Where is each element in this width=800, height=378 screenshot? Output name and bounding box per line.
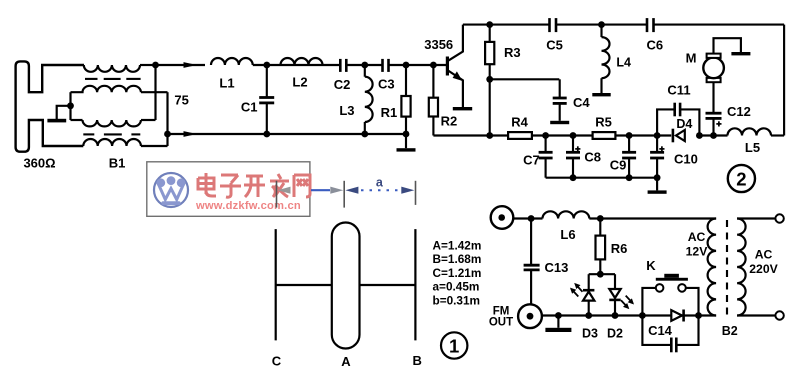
ground under L4 <box>592 93 610 96</box>
svg-text:AC: AC <box>688 230 706 244</box>
svg-text:R3: R3 <box>504 45 521 60</box>
node R1 bottom <box>403 131 410 138</box>
node motor branch <box>710 132 717 139</box>
wire bottom rail C1 to R1 <box>267 133 406 135</box>
arrow on bottom feed <box>184 131 198 137</box>
svg-text:K: K <box>646 258 656 273</box>
capacitor C13 <box>530 219 532 266</box>
yagi element A folded dipole <box>332 223 360 349</box>
yagi boom <box>276 284 332 286</box>
svg-text:C11: C11 <box>667 82 690 97</box>
svg-text:R5: R5 <box>595 115 612 130</box>
svg-text:C14: C14 <box>648 323 673 338</box>
B1 core dashes (top) <box>85 78 98 80</box>
node C8 top <box>570 132 577 139</box>
inductor L4 <box>600 25 602 37</box>
terminal top <box>775 214 783 222</box>
svg-text:C=1.21m: C=1.21m <box>433 266 482 280</box>
node K right <box>695 312 702 319</box>
node R1 top <box>403 62 410 69</box>
svg-text:R4: R4 <box>511 115 528 130</box>
wire collector rail <box>463 24 550 26</box>
balun transformer B1 winding w1 <box>84 65 140 72</box>
svg-text:C9: C9 <box>610 157 627 172</box>
node R3 top <box>486 21 493 28</box>
capacitor C1 <box>266 65 268 98</box>
transformer B2 secondary <box>737 219 746 316</box>
mast bar (center tap) <box>47 119 66 123</box>
node R6 top <box>597 215 604 222</box>
capacitor C11 bypass loop <box>657 109 675 135</box>
svg-text:B=1.68m: B=1.68m <box>433 252 482 266</box>
svg-text:75: 75 <box>174 93 188 108</box>
capacitor C3 (series) <box>381 59 384 72</box>
node D4 right <box>696 132 703 139</box>
motor M <box>707 78 721 82</box>
node ground stub <box>555 312 562 319</box>
svg-text:C: C <box>272 354 282 369</box>
ground under C4 <box>550 121 569 124</box>
B1 core dashes (bottom) <box>83 133 94 135</box>
ground stub <box>557 316 559 328</box>
wire R2 bottom to R4 node <box>433 134 489 136</box>
svg-text:L4: L4 <box>616 56 631 70</box>
svg-text:L3: L3 <box>339 103 354 118</box>
antenna input jack <box>491 206 514 229</box>
Q1 emitter with arrow <box>448 71 463 108</box>
resistor R5 <box>593 132 616 139</box>
svg-text:L1: L1 <box>219 76 234 91</box>
svg-text:L2: L2 <box>292 75 307 90</box>
LED D2 <box>614 274 616 289</box>
inductor L5 <box>699 134 727 136</box>
node R3 bottom <box>486 76 493 83</box>
diode D4 <box>672 129 675 143</box>
svg-text:M: M <box>686 51 697 66</box>
diode (on rail near K) <box>671 310 682 321</box>
svg-text:a: a <box>376 175 384 189</box>
svg-text:R2: R2 <box>441 114 458 129</box>
svg-text:L6: L6 <box>560 227 575 242</box>
resistor R4 <box>490 134 508 136</box>
node C1 bottom <box>263 131 270 138</box>
B2 secondary top lead <box>737 217 775 219</box>
svg-text:1: 1 <box>449 335 459 356</box>
wire C5 to C6 <box>556 24 647 26</box>
node K left <box>639 312 646 319</box>
B1 winding w3 (middle loop bottom) <box>71 119 83 121</box>
wire trunk from top node down to w3 <box>154 65 156 120</box>
circled 2 <box>728 165 755 192</box>
capacitor C4 <box>559 79 561 98</box>
capacitor C10 electrolytic <box>656 136 658 153</box>
svg-text:R6: R6 <box>611 241 628 256</box>
B2 core <box>726 220 728 315</box>
watermark logo circle <box>154 173 188 207</box>
wire C3 to base <box>389 64 447 66</box>
capacitor C2 (series) <box>339 59 342 72</box>
wire bottom bus C7..C10 <box>546 177 658 179</box>
wire L6 to B2 <box>589 217 716 219</box>
resistor R2 <box>432 65 434 98</box>
dimension arrow right navy <box>401 187 414 194</box>
svg-text:C12: C12 <box>727 104 751 119</box>
capacitor C8 electrolytic <box>572 136 574 153</box>
yagi element C <box>275 229 277 340</box>
folded dipole antenna (360 ohm) <box>16 61 84 151</box>
wire right leg to bottom node <box>166 92 168 146</box>
wire top rail L1 to C2 <box>253 64 340 66</box>
svg-text:C7: C7 <box>523 153 540 168</box>
capacitor C6 (series) <box>646 18 649 32</box>
svg-text:B1: B1 <box>109 156 126 171</box>
svg-text:B: B <box>413 353 422 368</box>
resistor R3 <box>489 25 491 42</box>
B1 middle loop left side <box>69 92 71 120</box>
svg-text:C13: C13 <box>545 260 569 275</box>
FM OUT jack <box>518 304 542 328</box>
node R4 left <box>486 132 493 139</box>
wire bottom rail <box>542 314 716 316</box>
capacitor C9 <box>628 136 630 153</box>
circled 1 <box>441 332 467 358</box>
dimension arrow right grey <box>330 187 343 194</box>
inductor L3 (shunt) <box>364 65 366 77</box>
B1 center tap wire <box>57 106 71 119</box>
wire right edge down <box>783 25 785 136</box>
dimension arrow left navy <box>345 187 358 194</box>
dimension dotted segment <box>361 189 398 191</box>
ground at emitter <box>453 107 472 110</box>
node C9 top <box>626 132 633 139</box>
node D3 bottom <box>585 312 592 319</box>
svg-text:www.dzkfw.com.cn: www.dzkfw.com.cn <box>195 200 301 212</box>
svg-text:R1: R1 <box>381 105 398 120</box>
svg-text:C6: C6 <box>646 38 663 53</box>
svg-text:C8: C8 <box>584 150 601 165</box>
node C10 top <box>654 132 661 139</box>
svg-text:2: 2 <box>736 168 746 189</box>
node base / R2 top <box>430 62 437 69</box>
svg-text:A: A <box>341 354 351 369</box>
B2 secondary bottom lead <box>737 314 775 316</box>
svg-text:b=0.31m: b=0.31m <box>433 294 481 308</box>
inductor L2 <box>281 58 323 65</box>
ground at motor <box>731 52 750 55</box>
node L4 top <box>598 21 605 28</box>
node C7 <box>542 132 549 139</box>
svg-text:a=0.45m: a=0.45m <box>433 280 480 294</box>
svg-text:OUT: OUT <box>489 317 513 329</box>
wire jack to node <box>513 217 542 219</box>
svg-text:D2: D2 <box>607 326 623 340</box>
svg-text:C3: C3 <box>378 76 395 91</box>
transformer B2 primary <box>708 219 717 316</box>
arrow on top feed <box>184 62 198 68</box>
node C10 bottom <box>654 174 661 181</box>
node L3 top <box>361 62 368 69</box>
resistor R6 <box>599 219 601 236</box>
dimension tick C <box>276 181 278 208</box>
wire R3 node to C4 <box>490 78 560 80</box>
B1 winding w4 <box>83 139 141 146</box>
wire C6 to right edge <box>654 24 785 26</box>
svg-text:3356: 3356 <box>424 37 453 52</box>
capacitor C5 (series) <box>548 18 551 32</box>
ground under R1 <box>405 134 407 148</box>
svg-text:C10: C10 <box>674 151 698 166</box>
ground under C10 <box>656 178 658 191</box>
terminal bottom <box>775 311 783 319</box>
svg-text:220V: 220V <box>749 262 778 276</box>
wire bottom feed line <box>168 133 267 135</box>
LED D3 <box>588 274 590 290</box>
wire motor to ground <box>714 38 741 53</box>
node top output <box>152 62 159 69</box>
svg-text:360Ω: 360Ω <box>23 156 55 171</box>
svg-text:12V: 12V <box>686 245 709 259</box>
svg-text:C1: C1 <box>241 100 258 115</box>
svg-text:B2: B2 <box>722 324 738 338</box>
svg-text:L5: L5 <box>745 140 760 155</box>
wire C2 to C3 <box>346 64 382 66</box>
svg-text:C2: C2 <box>334 77 351 92</box>
svg-text:C4: C4 <box>573 95 590 110</box>
node C8 bottom <box>570 174 577 181</box>
svg-text:AC: AC <box>755 248 773 262</box>
inductor L6 <box>543 211 590 218</box>
yagi element B <box>414 229 416 340</box>
transistor Q1 3356 base bar <box>446 57 449 76</box>
node C9 bottom <box>626 174 633 181</box>
svg-text:A=1.42m: A=1.42m <box>433 238 482 252</box>
svg-text:C5: C5 <box>546 38 563 53</box>
Q1 collector <box>448 25 463 61</box>
capacitor C12 electrolytic <box>712 118 714 135</box>
dimension tick A <box>343 181 345 208</box>
dimension tick B <box>415 181 417 205</box>
node C1 top <box>263 62 270 69</box>
capacitor C14 loop <box>642 316 671 345</box>
dimension arrow left (grey) <box>278 187 291 194</box>
watermark title glyphs <box>198 173 310 197</box>
svg-text:D4: D4 <box>676 117 692 131</box>
node L3 bottom <box>361 131 368 138</box>
capacitor C7 <box>545 136 547 153</box>
watermark box <box>147 162 310 217</box>
B1 winding w2 (middle loop top) <box>71 86 141 92</box>
node D2 bottom <box>612 312 619 319</box>
svg-text:D3: D3 <box>582 326 598 340</box>
resistor R1 <box>405 65 407 96</box>
LED top bus <box>589 273 615 275</box>
node bottom output <box>164 131 171 138</box>
dimension blue segment <box>311 189 330 191</box>
wire top feed line <box>156 64 206 66</box>
node C13/L6 <box>528 215 535 222</box>
inductor L1 <box>211 58 253 65</box>
